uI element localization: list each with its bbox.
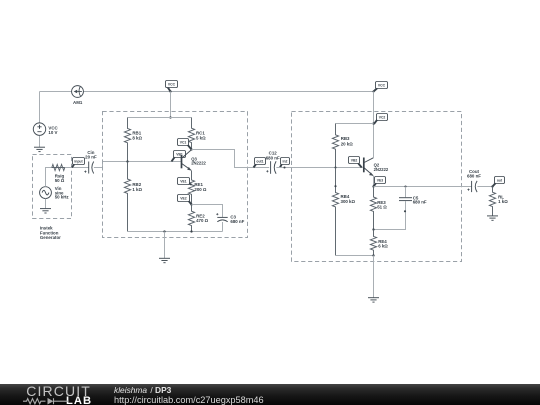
junction bottom rail ground tap (163, 230, 165, 232)
svg-text:input: input (74, 159, 83, 163)
ground below RL (487, 216, 498, 220)
resistor RE4 (6 kohm) (370, 230, 376, 256)
capacitor C12 (680 nF) (266, 161, 276, 174)
wire: VCC source stubs (39, 92, 41, 148)
junction out node (491, 185, 493, 187)
wire: Vin top to Rsig row (46, 168, 52, 187)
svg-text:RB18 kΩ: RB18 kΩ (132, 131, 142, 141)
wire: VCC drop into stage 1 (170, 92, 172, 118)
capacitor Cin (20 nF) (84, 162, 93, 174)
svg-text:RC15 kΩ: RC15 kΩ (196, 131, 206, 141)
wire: C5 top stem (405, 187, 407, 198)
svg-text:VCC: VCC (168, 82, 176, 86)
svg-text:VE3: VE3 (377, 178, 384, 182)
net flag out (493, 177, 505, 187)
junction RB3-RB4 wire segment (334, 185, 336, 187)
wire: Rsig to Cin (65, 167, 89, 169)
svg-text:RB320 kΩ: RB320 kΩ (341, 136, 354, 146)
svg-text:VE1: VE1 (180, 179, 187, 183)
net flag out1 (254, 158, 266, 168)
net flag VCC (right) (374, 82, 388, 92)
footer url text (114, 395, 264, 405)
ground below stage 1 (159, 258, 170, 262)
svg-text:VC1: VC1 (180, 140, 187, 144)
junction RE3 bottom (372, 228, 374, 230)
svg-text:RB21 kΩ: RB21 kΩ (132, 182, 142, 192)
wire: stage 1 bottom rail (128, 231, 223, 233)
svg-text:RB4300 kΩ: RB4300 kΩ (341, 194, 356, 204)
ground below Vin (40, 209, 51, 213)
svg-text:C12680 nF: C12680 nF (266, 151, 280, 161)
svg-text:VCC10 V: VCC10 V (48, 125, 58, 135)
wire: stage 2 ground stem (373, 256, 375, 298)
net flag VC2 (374, 114, 388, 125)
junction base row RB column (126, 160, 128, 162)
svg-text:VC2: VC2 (379, 115, 386, 119)
footer bar (0, 384, 540, 405)
svg-text:AM1: AM1 (73, 100, 83, 105)
svg-text:Cin20 nF: Cin20 nF (85, 150, 97, 160)
svg-text:out1: out1 (256, 159, 263, 163)
junction VE2 node (190, 203, 192, 205)
junction bottom stage 2 (372, 254, 374, 256)
footer title text (114, 385, 171, 395)
svg-text:out: out (497, 178, 503, 182)
wire: C12 to stage 2 base (276, 167, 363, 169)
junction base row RB3/RB4 (334, 166, 336, 168)
svg-text:VB2: VB2 (351, 158, 358, 162)
net flag VC1 (178, 139, 192, 150)
svg-text:VE2: VE2 (180, 196, 187, 200)
svg-text:Q22N2222: Q22N2222 (374, 163, 389, 172)
svg-text:C3680 nF: C3680 nF (230, 214, 244, 224)
wire: Q3 collector to out1 row (192, 150, 270, 168)
resistor RB3 (39 kohm) (332, 124, 338, 168)
svg-text:RL1 kΩ: RL1 kΩ (498, 195, 508, 205)
wire: C5 bottom stem (374, 201, 406, 229)
wire: stage 1 ground stem (164, 232, 166, 259)
dashed enclosure: stage 2 amplifier (292, 112, 462, 262)
svg-text:RE351 Ω: RE351 Ω (377, 200, 387, 210)
wire: tee over to RB3 (336, 123, 374, 125)
net flag VE2 (178, 195, 192, 205)
net flag in2 (280, 158, 290, 168)
transistor Q3 (2N2222 NPN) (182, 150, 192, 171)
dashed enclosure: stage 1 amplifier (103, 112, 248, 238)
logo resistor-diode icon (23, 396, 69, 405)
wire: RB4 bottom rail (336, 255, 374, 257)
voltage source VCC (10 V) (33, 123, 45, 135)
capacitor C3 (680 nF) (216, 213, 228, 222)
resistor Rsig (50 ohm) (51, 164, 64, 170)
junction in2 attach (283, 166, 285, 168)
resistor RL (1 kohm) (489, 187, 495, 216)
net flag VE3 (374, 177, 386, 187)
resistor RB4 (300 kohm) (332, 168, 338, 256)
junction C5 top tee (404, 185, 406, 187)
transistor Q2 (2N2222 NPN) (364, 158, 374, 176)
wire: VCC drop to Q2 collector (373, 92, 375, 158)
resistor RE3 (51 ohm) (370, 187, 376, 230)
resistor RE2 (470 ohm) (188, 205, 194, 232)
dashed enclosure: function generator (33, 155, 72, 219)
net flag VB2 (349, 157, 362, 168)
CircuitLab logo wordmark (26, 383, 91, 399)
wire: top rail from AM1 to stage-2 drop (84, 91, 374, 93)
wire: stage 1 top rail (128, 117, 192, 119)
wire: Vin bottom to ground (45, 199, 47, 209)
wire: VE2 node over to C3 (192, 205, 223, 218)
svg-text:Vinsine50 kHz: Vinsine50 kHz (55, 186, 70, 199)
junction collector rail tee (372, 122, 374, 124)
junction stage1 top center (169, 116, 171, 118)
resistor RC1 (5 kohm) (188, 118, 194, 150)
net flag input (72, 158, 85, 168)
wire: C3 bottom stem (222, 222, 224, 232)
ground below VCC source (34, 147, 45, 151)
junction on rail at VCC drop (169, 90, 171, 92)
svg-text:RE1200 Ω: RE1200 Ω (194, 182, 207, 192)
capacitor Cout (680 nF) (467, 181, 477, 192)
net flag VB1 (172, 151, 186, 162)
svg-text:Rsig50 Ω: Rsig50 Ω (55, 173, 65, 183)
wire: Cin into stage 1 with jog (94, 162, 181, 168)
resistor RE1 (200 ohm) (188, 171, 194, 205)
wire: Q2 emitter stub (373, 176, 375, 187)
resistor RB1 (8 kohm) (124, 118, 130, 162)
svg-text:Cout680 nF: Cout680 nF (467, 169, 481, 179)
svg-text:InstekFunctionGenerator: InstekFunctionGenerator (40, 226, 61, 240)
capacitor C5 (680 nF) (399, 198, 412, 201)
junction Q3 collector node (190, 148, 192, 150)
wire: emitter node to output (374, 186, 472, 188)
junction bottom rail RE2 (190, 230, 192, 232)
svg-text:C5680 nF: C5680 nF (413, 195, 427, 204)
ground below stage 2 (368, 298, 379, 302)
net flag VCC (left) (166, 81, 178, 92)
svg-text:Q32N2222: Q32N2222 (191, 157, 206, 166)
wire: top rail left of AM1 (40, 91, 72, 93)
sine source Vin (40, 187, 52, 199)
wire: Cout to out node (477, 186, 492, 188)
svg-text:RE46 kΩ: RE46 kΩ (378, 239, 388, 249)
junction C5 bottom segment (404, 210, 406, 212)
net flag VE1 (178, 178, 192, 185)
svg-text:RE2470 Ω: RE2470 Ω (196, 213, 209, 223)
junction rail corner right (372, 90, 374, 92)
svg-text:VCC: VCC (378, 83, 386, 87)
ammeter AM1 (72, 86, 84, 98)
junction Q2 emitter node (372, 185, 374, 187)
resistor RB2 (1 kohm) (124, 162, 130, 232)
svg-text:in2: in2 (283, 159, 288, 163)
